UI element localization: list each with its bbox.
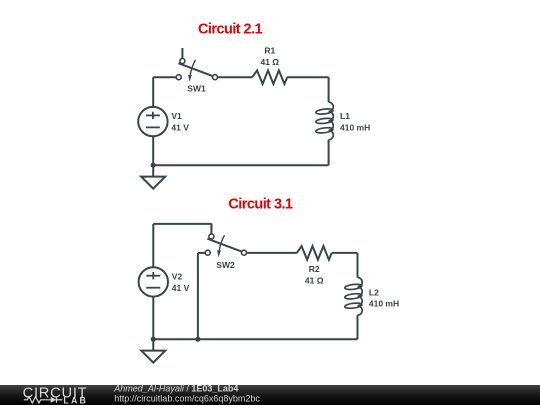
svg-text:LAB: LAB bbox=[63, 395, 88, 405]
voltage source V2 bbox=[139, 267, 168, 296]
wire bottom rail circuit 2.1 bbox=[153, 164, 328, 166]
junction node ground circuit 3.1 bbox=[151, 337, 156, 342]
svg-text:http://circuitlab.com/cq6x6q8y: http://circuitlab.com/cq6x6q8ybm2bc bbox=[114, 393, 260, 403]
wire top rail V2 to SW2 bbox=[153, 223, 211, 225]
svg-text:41 Ω: 41 Ω bbox=[260, 57, 279, 67]
CircuitLab logo schematic squiggle (resistor and diode) bbox=[24, 397, 63, 403]
wire down to V2 plus bbox=[152, 224, 154, 267]
wire L2 to bottom rail bbox=[357, 315, 359, 339]
svg-text:410 mH: 410 mH bbox=[369, 298, 399, 308]
switch SW1 bbox=[176, 48, 217, 82]
wire SW1 right to R1 bbox=[218, 76, 253, 78]
svg-text:Ahmed_Al-Hayali / 1E03_Lab4: Ahmed_Al-Hayali / 1E03_Lab4 bbox=[113, 383, 238, 393]
wire L1 to bottom rail bbox=[328, 140, 330, 166]
junction node ground circuit 2.1 bbox=[151, 163, 156, 168]
svg-text:R2: R2 bbox=[309, 264, 320, 274]
inductor L1 bbox=[316, 102, 334, 140]
wire stub to SW2 common bbox=[211, 224, 213, 234]
wire R1 to top-right corner bbox=[287, 76, 328, 78]
resistor R1 bbox=[252, 70, 287, 84]
ground bbox=[141, 165, 165, 188]
inductor L2 bbox=[344, 278, 362, 316]
wire node A down to V1 plus bbox=[152, 77, 154, 107]
wire corner down to L2 bbox=[357, 253, 359, 278]
voltage source V1 bbox=[138, 107, 167, 136]
svg-text:41 Ω: 41 Ω bbox=[305, 276, 324, 286]
wire R2 to right corner bbox=[332, 252, 358, 254]
svg-text:L1: L1 bbox=[340, 111, 350, 121]
wire V1 minus to ground node bbox=[152, 136, 154, 165]
wire SW2 right to R2 bbox=[247, 252, 297, 254]
switch SW2 bbox=[205, 224, 246, 258]
wire V2 minus to bottom rail bbox=[152, 297, 154, 340]
svg-text:41 V: 41 V bbox=[172, 283, 190, 293]
svg-text:R1: R1 bbox=[264, 46, 275, 56]
svg-text:L2: L2 bbox=[369, 287, 379, 297]
wire corner down to L1 bbox=[328, 77, 330, 102]
wire left throw down to bottom rail bbox=[197, 253, 199, 339]
svg-text:V2: V2 bbox=[172, 271, 183, 281]
svg-text:V1: V1 bbox=[171, 111, 182, 121]
wire node A to SW1 left bbox=[153, 76, 176, 78]
wire bottom rail circuit 3.1 bbox=[153, 338, 357, 340]
ground bbox=[141, 339, 165, 362]
wire SW2 left throw jog bbox=[198, 252, 205, 254]
svg-text:SW1: SW1 bbox=[187, 83, 206, 93]
resistor R2 bbox=[297, 246, 332, 260]
junction node left throw / bottom rail bbox=[195, 337, 200, 342]
CircuitLab logo wordmark bbox=[23, 386, 88, 405]
svg-text:SW2: SW2 bbox=[216, 260, 235, 270]
svg-text:41 V: 41 V bbox=[171, 123, 189, 133]
svg-text:410 mH: 410 mH bbox=[340, 123, 370, 133]
svg-text:Circuit 2.1: Circuit 2.1 bbox=[198, 22, 263, 38]
svg-text:Circuit 3.1: Circuit 3.1 bbox=[228, 197, 293, 213]
footer bar bbox=[0, 385, 540, 405]
